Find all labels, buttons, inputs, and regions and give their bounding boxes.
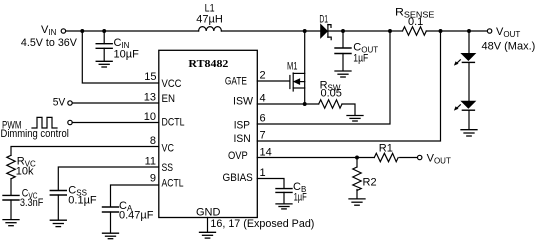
svg-text:GBIAS: GBIAS (223, 172, 253, 184)
svg-text:16, 17 (Exposed Pad): 16, 17 (Exposed Pad) (210, 218, 314, 230)
ground for CSS (50, 220, 66, 226)
node COUT junction (341, 29, 345, 33)
node SW junction (303, 29, 307, 33)
svg-text:0.47µF: 0.47µF (119, 210, 154, 222)
wire VIN node down to VCC (82, 31, 159, 83)
svg-text:13: 13 (144, 92, 156, 104)
transistor M1 (N-MOSFET) (290, 73, 305, 91)
wire ACTL pin 9 to CA (111, 185, 159, 207)
resistor R2 (vertical) (353, 167, 361, 191)
svg-text:RT8482: RT8482 (188, 58, 229, 70)
svg-text:0.1: 0.1 (408, 16, 423, 28)
capacitor CB (276, 189, 292, 204)
wire LED1 to LED2 (468, 63, 470, 102)
svg-text:9: 9 (150, 173, 156, 185)
node ISW junction (303, 102, 307, 106)
node OVP/R2 junction (355, 156, 359, 160)
svg-text:11: 11 (145, 156, 156, 168)
svg-text:1µF: 1µF (294, 192, 307, 204)
LED D3 emission arrow (454, 105, 460, 111)
wire VC pin 8 to RVC (11, 147, 159, 156)
ground for CIN (96, 61, 112, 67)
wire R2 top stub (356, 158, 358, 168)
svg-text:ISP: ISP (234, 120, 250, 132)
resistor R1 (374, 153, 398, 161)
svg-text:R1: R1 (379, 142, 393, 154)
wire R2 bottom to ground (356, 190, 358, 199)
svg-text:5V: 5V (53, 96, 66, 108)
wire OVP pin 14 to R1/R2 node (257, 157, 374, 159)
LED D2 (first LED) (462, 54, 475, 63)
wire LED string node down to LED1 (468, 31, 470, 54)
wire GATE pin 2 to M1 gate (257, 80, 289, 82)
node VIN junction (80, 29, 84, 33)
svg-text:0.05: 0.05 (321, 88, 342, 100)
svg-text:EN: EN (162, 93, 176, 105)
terminal DCTL (68, 120, 72, 124)
node ISN junction (439, 29, 443, 33)
ground for R2 (349, 199, 365, 205)
svg-text:3.3nF: 3.3nF (20, 197, 44, 209)
ground for IC GND pin (200, 232, 216, 238)
svg-text:1µF: 1µF (353, 53, 368, 65)
svg-text:4: 4 (260, 93, 266, 105)
ground for CA (103, 233, 119, 239)
wire LED2 to ground (468, 111, 470, 130)
resistor RVC 10k (vertical) (7, 155, 15, 179)
svg-text:ISN: ISN (234, 133, 251, 145)
wire R1 right to VOUT terminal (400, 157, 418, 159)
capacitor CVC (3, 195, 19, 219)
node CIN junction (102, 29, 106, 33)
node ISP junction (388, 29, 392, 33)
svg-text:15: 15 (144, 71, 156, 83)
wire PWM to DCTL pin 10 (72, 122, 159, 124)
svg-text:8: 8 (150, 135, 156, 147)
capacitor CIN (96, 31, 112, 61)
wire SS pin 11 to CSS (58, 167, 159, 190)
terminal VOUT top (487, 29, 491, 33)
svg-text:48V (Max.): 48V (Max.) (482, 41, 536, 53)
svg-text:7: 7 (260, 130, 266, 142)
svg-text:VIN: VIN (41, 24, 57, 37)
wire L1 to SW node (221, 30, 320, 32)
svg-text:DCTL: DCTL (162, 117, 185, 129)
svg-text:47µH: 47µH (196, 13, 223, 25)
inductor L1 (199, 27, 222, 31)
wire 5V to EN pin 13 (72, 102, 159, 104)
ground for COUT (335, 71, 351, 77)
svg-text:GATE: GATE (225, 75, 247, 87)
capacitor CA (103, 207, 119, 233)
ground for LED string (461, 130, 477, 136)
node LED junction (467, 29, 471, 33)
resistor RSENSE 0.1 (403, 27, 427, 35)
LED D3 (second LED) (462, 101, 475, 110)
diode D1 (schottky) (321, 25, 331, 40)
wire GBIAS pin 1 to CB (257, 179, 284, 189)
wire top rail VIN to L1 (66, 30, 199, 32)
svg-text:VCC: VCC (162, 78, 182, 90)
svg-text:M1: M1 (287, 61, 298, 73)
svg-text:1: 1 (260, 167, 266, 179)
svg-text:10: 10 (144, 111, 156, 123)
svg-text:VOUT: VOUT (496, 26, 520, 39)
wire ISN pin 7 up to RSENSE right (257, 31, 440, 141)
svg-text:2: 2 (260, 70, 266, 82)
terminal VIN (61, 29, 65, 33)
terminal VOUT right (418, 155, 422, 159)
capacitor CSS (50, 191, 66, 220)
ground for RSW (347, 116, 363, 122)
wire RSENSE left stub (390, 30, 403, 32)
capacitor COUT (335, 31, 351, 71)
svg-text:10k: 10k (16, 166, 34, 178)
resistor RSW 0.05 (319, 100, 342, 108)
op-amp U1 : RT8482 IC body (159, 50, 257, 217)
wire RSW right end to ground (342, 104, 355, 115)
svg-text:GND: GND (196, 206, 221, 218)
svg-text:D1: D1 (319, 13, 328, 25)
svg-text:OVP: OVP (228, 150, 248, 162)
wire IC GND pin to ground (207, 218, 209, 233)
svg-text:14: 14 (260, 147, 272, 159)
svg-text:VC: VC (162, 143, 175, 155)
svg-text:R2: R2 (363, 176, 377, 188)
svg-text:0.1µF: 0.1µF (68, 195, 97, 207)
LED D2 emission arrow (454, 60, 460, 66)
svg-text:SS: SS (162, 162, 174, 174)
wire RVC to CVC (10, 179, 12, 195)
ground for CB (276, 204, 292, 209)
ground for CVC (3, 220, 19, 226)
wire ISW pin 4 to RSW (257, 103, 318, 105)
svg-text:ACTL: ACTL (162, 178, 184, 190)
wire SW vertical L1/D1 node to M1 and ISW (304, 31, 306, 104)
svg-text:Dimming control: Dimming control (1, 128, 69, 140)
svg-text:ISW: ISW (233, 96, 254, 108)
svg-text:10µF: 10µF (114, 49, 140, 61)
wire D1 cathode to ISP node (328, 30, 390, 32)
svg-text:6: 6 (260, 113, 266, 125)
wire ISP pin 6 up to RSENSE left (257, 31, 390, 124)
terminal 5V (68, 101, 72, 105)
svg-text:VOUT: VOUT (427, 152, 451, 165)
svg-text:4.5V to 36V: 4.5V to 36V (21, 37, 78, 49)
PWM square wave symbol (32, 117, 57, 128)
wire RSENSE right to VOUT terminal (426, 30, 487, 32)
